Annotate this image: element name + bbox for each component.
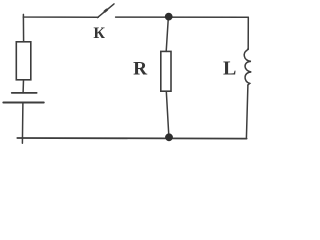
svg-text:R: R xyxy=(133,59,147,80)
svg-text:L: L xyxy=(223,57,236,79)
svg-text:К: К xyxy=(93,25,105,42)
